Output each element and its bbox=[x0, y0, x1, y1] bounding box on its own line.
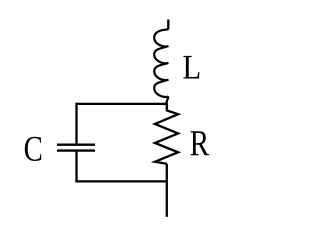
wire: coil bottom connector to node A bbox=[166, 96, 169, 104]
wire: bottom horizontal (node B) bbox=[77, 180, 167, 182]
wire: top terminal lead bbox=[167, 20, 169, 30]
wire: left branch upper vertical bbox=[75, 103, 77, 145]
inductor L1 coil (4 loops) bbox=[154, 29, 168, 97]
label C bbox=[25, 137, 41, 161]
capacitor C1 top plate bbox=[57, 143, 95, 145]
wire: bottom terminal lead bbox=[166, 164, 168, 217]
wire: left branch lower vertical bbox=[75, 151, 77, 183]
label R bbox=[191, 131, 210, 155]
wire: top horizontal (node A) bbox=[77, 103, 167, 105]
label L bbox=[183, 56, 199, 79]
resistor R1 zigzag bbox=[155, 103, 178, 164]
capacitor C1 bottom plate bbox=[57, 149, 95, 151]
